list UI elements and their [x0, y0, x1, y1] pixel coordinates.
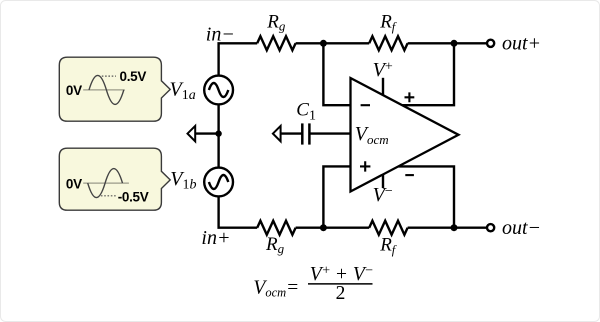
dotted trough level line (V1b note) [101, 195, 116, 197]
op-amp out+ polarity mark [405, 92, 415, 102]
node B junction dot [451, 40, 458, 47]
wire node D to out- terminal [454, 226, 486, 228]
waveform axis line (V1a note) [83, 89, 125, 91]
ground reference arrow (mid node) [188, 126, 196, 141]
wire V1b to in+ corner to Rg bottom [219, 196, 258, 228]
svg-text:2: 2 [336, 283, 346, 304]
source V1a circle [204, 76, 233, 105]
resistor Rg top [257, 36, 295, 50]
svg-text:in−: in− [206, 23, 235, 45]
V+ power pin [382, 78, 384, 96]
svg-text:0V: 0V [66, 83, 82, 98]
wire node A to Rf top [323, 42, 369, 44]
node C junction dot [320, 224, 327, 231]
wire node A to inverting input [323, 43, 350, 105]
node A junction dot [320, 40, 327, 47]
source V1b sine symbol [209, 175, 228, 189]
node D junction dot [451, 224, 458, 231]
dotted peak level line (V1a note) [102, 75, 116, 77]
formula Vocm = (V+ + V-)/2 [253, 263, 373, 304]
mid node junction dot [215, 130, 221, 136]
wire arrow to C1 [281, 132, 302, 134]
capacitor C1 plates [301, 123, 304, 144]
wire node C to Rf bottom [323, 226, 369, 228]
op-amp U1 triangle [351, 78, 459, 192]
svg-text:-0.5V: -0.5V [118, 189, 149, 204]
op-amp non-inverting input plus mark [360, 161, 370, 171]
callout note box for V1a waveform [59, 57, 170, 121]
wire Rg bottom to node C [296, 226, 324, 228]
sine waveform (V1b note) [88, 169, 123, 198]
ground reference arrow (C1) [273, 126, 281, 141]
wire node D to op-amp out- [398, 166, 454, 227]
svg-text:out−: out− [502, 217, 541, 239]
V- power pin [382, 174, 384, 188]
waveform axis line (V1b note) [83, 182, 129, 184]
op-amp out- polarity mark [405, 174, 414, 176]
wire in- to Rg top [219, 43, 258, 76]
wire node B to op-amp out+ [402, 43, 454, 105]
svg-text:V+ + V−: V+ + V− [310, 263, 374, 285]
wire Rf top to node B [408, 42, 454, 44]
svg-text:0.5V: 0.5V [120, 69, 147, 84]
out+ terminal circle [487, 40, 494, 47]
svg-text:out+: out+ [502, 32, 541, 54]
source V1b circle [204, 168, 233, 197]
resistor Rf top [369, 36, 407, 50]
sine waveform (V1a note) [89, 75, 124, 104]
svg-text:0V: 0V [66, 177, 82, 192]
resistor Rf bottom [369, 221, 407, 235]
out- terminal circle [487, 224, 494, 231]
callout note box for V1b waveform [59, 148, 170, 210]
op-amp inverting input minus mark [361, 104, 370, 106]
wire Rg top to node A [296, 42, 324, 44]
resistor Rg bottom [257, 221, 295, 235]
wire C1 to Vocm pin [309, 132, 350, 134]
wire node C to non-inverting input [323, 166, 350, 227]
wire mid node to ground arrow [196, 132, 219, 134]
wire V1a to V1b [217, 104, 219, 168]
svg-text:=: = [287, 277, 298, 298]
wire node B to out+ terminal [454, 42, 486, 44]
svg-text:in+: in+ [201, 227, 230, 249]
source V1a sine symbol [209, 83, 228, 97]
wire Rf bottom to node D [408, 226, 454, 228]
